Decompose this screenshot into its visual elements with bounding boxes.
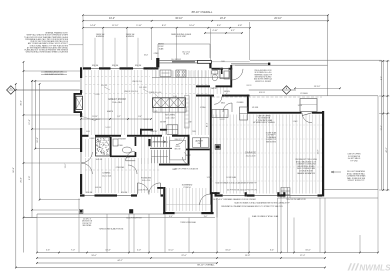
svg-text:TYP UNO: TYP UNO bbox=[350, 160, 358, 162]
svg-text:SL DR: SL DR bbox=[184, 54, 190, 56]
svg-text:9-0 CLG: 9-0 CLG bbox=[101, 85, 108, 87]
svg-text:VERIFY R.O. W/ MFR: VERIFY R.O. W/ MFR bbox=[255, 81, 272, 83]
svg-text:36′-10″: 36′-10″ bbox=[175, 17, 183, 20]
svg-text:17′-4″: 17′-4″ bbox=[300, 255, 306, 257]
svg-text:4′-8″: 4′-8″ bbox=[238, 25, 243, 27]
svg-text:22′-8″: 22′-8″ bbox=[318, 149, 320, 154]
svg-text:10′-0″: 10′-0″ bbox=[189, 25, 195, 27]
svg-text:20′-10″: 20′-10″ bbox=[274, 17, 282, 20]
svg-text:36″ REF: 36″ REF bbox=[160, 122, 166, 124]
svg-text:3′-0″: 3′-0″ bbox=[204, 216, 208, 218]
svg-text:19′-8″: 19′-8″ bbox=[245, 255, 251, 257]
svg-text:15′-10″: 15′-10″ bbox=[314, 86, 321, 88]
svg-text:3050 SH: 3050 SH bbox=[92, 65, 99, 67]
svg-text:DBL 2x10 HDR: DBL 2x10 HDR bbox=[149, 68, 161, 70]
svg-text:5′-0″: 5′-0″ bbox=[137, 250, 141, 252]
svg-text:EGRESS: EGRESS bbox=[96, 36, 105, 38]
svg-text:14′-8″: 14′-8″ bbox=[90, 25, 96, 27]
svg-text:SLAB ON GRADE 4″ AT ALL SLAB: SLAB ON GRADE 4″ AT ALL SLAB bbox=[252, 215, 279, 218]
svg-text:DINING: DINING bbox=[103, 173, 111, 175]
svg-text:3′-0″: 3′-0″ bbox=[169, 216, 173, 218]
svg-text:10-6 x 11-0: 10-6 x 11-0 bbox=[142, 180, 150, 182]
svg-text:SEE NOTES: SEE NOTES bbox=[266, 141, 277, 143]
svg-text:8′-0″: 8′-0″ bbox=[162, 25, 167, 27]
svg-text:62′-8″: 62′-8″ bbox=[13, 167, 15, 173]
svg-text:7′-0″: 7′-0″ bbox=[71, 250, 75, 252]
svg-text:SCRN: SCRN bbox=[207, 177, 211, 179]
svg-text:B.O. 9010: B.O. 9010 bbox=[139, 87, 146, 89]
svg-text:B25: B25 bbox=[155, 111, 158, 113]
svg-text:12′-0″: 12′-0″ bbox=[37, 137, 39, 143]
svg-text:5′-2″: 5′-2″ bbox=[117, 116, 121, 118]
svg-text:SLAB: SLAB bbox=[159, 47, 164, 50]
svg-text:12-0 x 13-6: 12-0 x 13-6 bbox=[102, 175, 111, 177]
svg-text:TURN DOWN SLAB: TURN DOWN SLAB bbox=[180, 221, 196, 224]
svg-text:SELF CLOSING 20 MIN: SELF CLOSING 20 MIN bbox=[297, 168, 316, 170]
svg-text:16′-0″: 16′-0″ bbox=[225, 250, 231, 252]
svg-text:2-2x10: 2-2x10 bbox=[95, 94, 100, 96]
svg-text:10′-6″: 10′-6″ bbox=[105, 250, 111, 252]
svg-text:12080 FR DR: 12080 FR DR bbox=[138, 190, 148, 192]
svg-text:3050 SH: 3050 SH bbox=[135, 65, 142, 67]
svg-text:88′-10″ OVERALL: 88′-10″ OVERALL bbox=[192, 10, 213, 14]
svg-text:2680: 2680 bbox=[221, 61, 225, 63]
svg-text:88′-10″ OVERALL: 88′-10″ OVERALL bbox=[197, 264, 215, 267]
svg-text:WINDOW AT ALL EGRESS AND SHEAR: WINDOW AT ALL EGRESS AND SHEAR LOCATIONS bbox=[26, 51, 69, 54]
svg-text:PORCH TYP: PORCH TYP bbox=[82, 223, 91, 225]
svg-text:3′-4″: 3′-4″ bbox=[270, 250, 274, 252]
svg-text:18′-0″: 18′-0″ bbox=[91, 255, 97, 257]
svg-text:BELOW: BELOW bbox=[175, 149, 181, 151]
svg-text:LAUNDRY: LAUNDRY bbox=[195, 140, 204, 143]
svg-text:12-0 x 16-8: 12-0 x 16-8 bbox=[165, 117, 174, 119]
svg-text:5/8 GWB: 5/8 GWB bbox=[252, 107, 258, 109]
svg-text:26′-8″: 26′-8″ bbox=[21, 177, 23, 183]
svg-text:4040 SH: 4040 SH bbox=[96, 159, 103, 161]
svg-text:DOOR UNIT: DOOR UNIT bbox=[176, 36, 187, 38]
svg-text:POWDER: POWDER bbox=[118, 139, 126, 141]
svg-text:CUBBIES: CUBBIES bbox=[237, 102, 244, 104]
svg-text:2x6 DFL #2: 2x6 DFL #2 bbox=[83, 219, 91, 221]
svg-text:LINE OF 12-0 CLG: LINE OF 12-0 CLG bbox=[124, 91, 138, 93]
svg-text:13′-10″: 13′-10″ bbox=[92, 116, 98, 118]
svg-text:2680: 2680 bbox=[126, 157, 130, 159]
svg-text:11′-0″: 11′-0″ bbox=[168, 250, 173, 252]
svg-text:6x6 PT POST ON 24x24x10 FTG TY: 6x6 PT POST ON 24x24x10 FTG TYP OF 2 bbox=[227, 190, 257, 192]
svg-text:3050 SH: 3050 SH bbox=[112, 65, 119, 67]
svg-text:2680: 2680 bbox=[192, 131, 196, 133]
svg-text:W/ WWM OVER 4″ GRAVEL: W/ WWM OVER 4″ GRAVEL bbox=[253, 121, 275, 124]
svg-text:SLAB ON GRADE 4″ AT ALL SLAB A: SLAB ON GRADE 4″ AT ALL SLAB AREAS SEE N… bbox=[234, 201, 290, 204]
svg-text:44′-2″: 44′-2″ bbox=[109, 17, 115, 20]
svg-text:9′-0″: 9′-0″ bbox=[29, 176, 31, 180]
svg-text:13′-0″: 13′-0″ bbox=[381, 125, 383, 130]
svg-text:8′-0″: 8′-0″ bbox=[381, 76, 383, 80]
svg-text:5-1 1/2: 5-1 1/2 bbox=[106, 127, 111, 129]
svg-text:MUD: MUD bbox=[221, 103, 226, 105]
svg-text:16′-0″ x 8′-0″ OVERHEAD GARAGE: 16′-0″ x 8′-0″ OVERHEAD GARAGE DOOR W/ O… bbox=[213, 198, 256, 201]
svg-text:6030 XO: 6030 XO bbox=[259, 92, 266, 94]
svg-text:3′-4″: 3′-4″ bbox=[138, 116, 142, 118]
svg-text:PROVIDE 5/8″ TYPE X GWB: PROVIDE 5/8″ TYPE X GWB bbox=[295, 159, 316, 161]
svg-text:KITCHEN: KITCHEN bbox=[165, 115, 175, 117]
svg-text:4′-10″: 4′-10″ bbox=[212, 30, 218, 32]
svg-text:44′-6″: 44′-6″ bbox=[386, 147, 388, 152]
svg-text:10x10 PORCH POST: 10x10 PORCH POST bbox=[126, 218, 141, 220]
svg-text:9-1 1/2: 9-1 1/2 bbox=[144, 119, 149, 121]
svg-text:17′-0″: 17′-0″ bbox=[29, 119, 31, 125]
svg-text:PANTRY: PANTRY bbox=[151, 130, 159, 133]
svg-text:11′-10″: 11′-10″ bbox=[112, 25, 119, 27]
svg-text:9′-4″: 9′-4″ bbox=[217, 25, 222, 27]
svg-text:NWMLS: NWMLS bbox=[359, 263, 390, 273]
svg-text:4040 SH: 4040 SH bbox=[95, 187, 101, 189]
svg-text:2680 PKT: 2680 PKT bbox=[174, 139, 181, 141]
svg-text:3050 SH: 3050 SH bbox=[86, 192, 93, 194]
svg-text:13′-6″: 13′-6″ bbox=[65, 163, 67, 168]
svg-text:16-0 SLIDER: 16-0 SLIDER bbox=[171, 59, 182, 61]
svg-text:5′-6″: 5′-6″ bbox=[46, 250, 50, 252]
svg-text:3-3x3: 3-3x3 bbox=[173, 96, 177, 98]
svg-text:LINE OF CLG: LINE OF CLG bbox=[132, 81, 142, 83]
svg-text:16′-0″: 16′-0″ bbox=[305, 250, 311, 252]
svg-text:SEE NOTES & SCHED: SEE NOTES & SCHED bbox=[297, 166, 315, 168]
svg-text:BENCH: BENCH bbox=[224, 91, 230, 93]
svg-text:5′-10″: 5′-10″ bbox=[136, 25, 142, 27]
svg-text:16′-0″: 16′-0″ bbox=[144, 55, 149, 57]
svg-text:GARAGE: GARAGE bbox=[245, 152, 256, 155]
svg-text:19-6 x 18-0: 19-6 x 18-0 bbox=[112, 102, 122, 104]
svg-text:22′-0″: 22′-0″ bbox=[181, 255, 187, 257]
svg-text:W/ SCREEN 16-0 x 8-0: W/ SCREEN 16-0 x 8-0 bbox=[255, 72, 272, 74]
svg-text:36′-0″: 36′-0″ bbox=[21, 100, 23, 106]
svg-text:PORCH: PORCH bbox=[184, 187, 191, 189]
svg-text:44′-2″: 44′-2″ bbox=[117, 260, 123, 262]
svg-text:4050 SH: 4050 SH bbox=[121, 192, 128, 194]
svg-text:4040: 4040 bbox=[86, 131, 90, 133]
svg-text:DECKING ON: DECKING ON bbox=[82, 221, 93, 223]
svg-text:DRIVEWAY SLOPE AWAY FROM GARAG: DRIVEWAY SLOPE AWAY FROM GARAGE MIN 2% T… bbox=[221, 205, 283, 208]
svg-text:STRUCT NOTES TYP: STRUCT NOTES TYP bbox=[348, 180, 366, 182]
svg-text:TURN DOWN SLAB (PORCH): TURN DOWN SLAB (PORCH) bbox=[99, 228, 124, 231]
svg-text:SEE WINDOW SCHED: SEE WINDOW SCHED bbox=[255, 76, 272, 78]
svg-text:6′-1″: 6′-1″ bbox=[231, 30, 235, 32]
svg-text:21-4 x 22-8: 21-4 x 22-8 bbox=[246, 156, 256, 158]
svg-text:COMMON TO DWELLING: COMMON TO DWELLING bbox=[296, 164, 316, 166]
svg-text:23′-4″: 23′-4″ bbox=[220, 17, 226, 20]
svg-text:5-1 1/2: 5-1 1/2 bbox=[220, 119, 225, 121]
svg-text:10′-1″: 10′-1″ bbox=[207, 122, 209, 127]
svg-text:EGRESS: EGRESS bbox=[126, 36, 135, 38]
svg-text:GREAT ROOM: GREAT ROOM bbox=[108, 98, 125, 101]
svg-text:OPEN: OPEN bbox=[154, 53, 160, 55]
svg-text:9-0 x 8-0 OH GAR DOOR: 9-0 x 8-0 OH GAR DOOR bbox=[286, 198, 306, 201]
